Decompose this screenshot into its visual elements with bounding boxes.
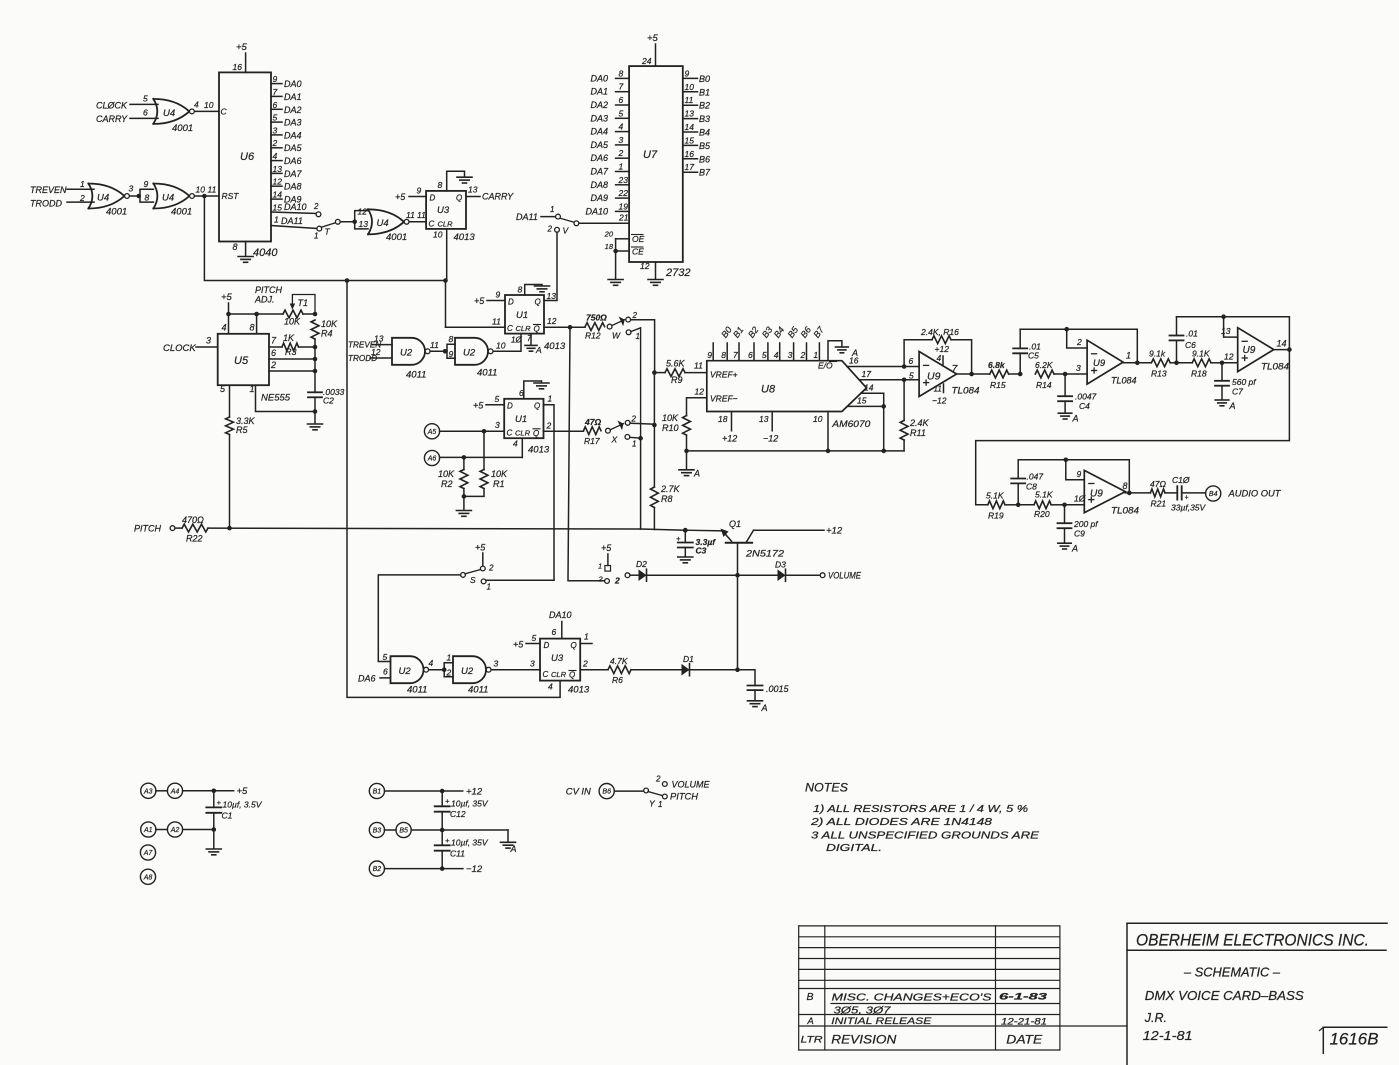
ground A (U1a pin 7) xyxy=(511,334,542,355)
wire U9d feedback rail xyxy=(1018,458,1131,496)
svg-text:A6: A6 xyxy=(427,456,437,463)
svg-text:S: S xyxy=(470,575,476,585)
svg-text:DA7: DA7 xyxy=(284,169,303,179)
svg-text:U2: U2 xyxy=(399,666,412,677)
svg-text:+: + xyxy=(445,836,450,845)
svg-text:VOLUME: VOLUME xyxy=(828,571,862,581)
ground A (R10) xyxy=(679,469,700,479)
svg-text:R17: R17 xyxy=(584,436,600,446)
svg-text:DA2: DA2 xyxy=(590,100,608,110)
svg-text:9: 9 xyxy=(707,350,712,360)
svg-text:12: 12 xyxy=(358,207,368,217)
svg-text:DA9: DA9 xyxy=(590,193,608,203)
svg-text:DA5: DA5 xyxy=(284,143,303,153)
svg-text:DA6: DA6 xyxy=(284,156,302,166)
pin 5 (U8 input) xyxy=(760,325,775,361)
pin 10 ground (U8) xyxy=(813,412,830,454)
connector A1 xyxy=(141,822,168,837)
svg-text:2) ALL DIODES ARE 1N4148: 2) ALL DIODES ARE 1N4148 xyxy=(810,816,993,828)
capacitor C12 10uf xyxy=(435,791,489,830)
svg-text:B1: B1 xyxy=(699,87,710,97)
wire stage3 to stage4 long feedback path xyxy=(976,350,1290,505)
svg-text:15: 15 xyxy=(857,396,867,406)
svg-text:R8: R8 xyxy=(661,494,673,504)
capacitor C2 .0033 xyxy=(308,387,345,414)
svg-text:DA4: DA4 xyxy=(284,130,302,140)
svg-text:CLR: CLR xyxy=(438,220,454,229)
svg-text:B3: B3 xyxy=(373,828,382,835)
flip-flop U1a 4013 xyxy=(505,295,566,352)
svg-text:Q: Q xyxy=(569,671,575,680)
svg-text:4.7K: 4.7K xyxy=(610,656,628,666)
svg-text:470Ω: 470Ω xyxy=(182,515,204,525)
wire U4b out xyxy=(129,184,142,199)
svg-text:+5: +5 xyxy=(475,543,486,553)
resistor R20 5.1K xyxy=(1018,490,1087,520)
svg-text:10: 10 xyxy=(433,230,443,240)
wire RST node down and across xyxy=(204,196,447,283)
svg-text:DATE: DATE xyxy=(1006,1035,1042,1047)
wire U2d out to U3b C xyxy=(491,659,540,670)
svg-text:2.7K: 2.7K xyxy=(660,484,681,494)
label DA11 to jumper V xyxy=(516,205,560,222)
gate U2a 4011 xyxy=(392,338,430,381)
pin 6 DA2 (U7) xyxy=(590,95,629,110)
svg-text:2: 2 xyxy=(272,138,278,148)
power +5 (U5) xyxy=(221,292,233,314)
svg-text:2: 2 xyxy=(631,415,637,424)
svg-text:1616B: 1616B xyxy=(1330,1031,1379,1049)
svg-text:20: 20 xyxy=(604,230,614,239)
svg-text:6: 6 xyxy=(143,108,148,118)
jumper contact 2 xyxy=(598,575,621,586)
pin 13 B3 (U7) xyxy=(683,109,710,125)
wire pitch line xyxy=(208,527,641,530)
svg-text:CV IN: CV IN xyxy=(566,787,591,798)
svg-text:5: 5 xyxy=(532,633,537,643)
pin 16 B6 (U7) xyxy=(683,149,710,165)
pin 13 -12 (U8) xyxy=(759,412,778,444)
pin 15 B5 (U7) xyxy=(683,135,711,151)
svg-text:PITCH: PITCH xyxy=(255,285,283,295)
svg-text:RST: RST xyxy=(222,191,240,201)
svg-text:LTR: LTR xyxy=(801,1035,823,1046)
svg-text:8: 8 xyxy=(518,285,523,295)
svg-text:4011: 4011 xyxy=(406,370,426,381)
svg-text:13: 13 xyxy=(685,109,695,119)
pin 5 DA3 (U6) xyxy=(271,113,302,128)
svg-text:2: 2 xyxy=(546,421,552,431)
connector B3 xyxy=(369,822,396,837)
power +5 (volume jumper) xyxy=(601,543,612,566)
svg-text:PITCH: PITCH xyxy=(134,524,162,534)
gate U4c 4001 xyxy=(153,184,194,218)
wire pins 14/15 to ground rail xyxy=(848,383,887,454)
resistor R9 5.6K xyxy=(654,359,706,386)
wire Q12 node to volume jumper xyxy=(568,327,605,581)
svg-text:DA11: DA11 xyxy=(281,216,303,226)
svg-text:12: 12 xyxy=(273,177,283,187)
svg-text:8: 8 xyxy=(250,323,255,333)
svg-text:.0015: .0015 xyxy=(766,684,790,694)
wire U9a out 7 xyxy=(952,363,990,375)
svg-text:+: + xyxy=(1185,495,1189,502)
svg-text:X: X xyxy=(611,435,618,445)
svg-text:R11: R11 xyxy=(910,428,926,438)
svg-text:22: 22 xyxy=(618,188,629,198)
op-amp U9c TL084 xyxy=(1238,328,1289,373)
svg-text:DA1: DA1 xyxy=(284,92,302,102)
svg-text:4011: 4011 xyxy=(468,685,488,696)
svg-text:16: 16 xyxy=(849,356,859,366)
svg-text:4013: 4013 xyxy=(528,445,550,456)
svg-text:7: 7 xyxy=(527,334,532,343)
svg-text:C1: C1 xyxy=(222,811,233,821)
pins 20 OE / 18 CE grounded xyxy=(604,230,645,280)
pin 4 (U8 input) xyxy=(772,325,787,361)
capacitor C1 10uf xyxy=(206,791,262,830)
svg-text:DIGITAL.: DIGITAL. xyxy=(826,842,882,854)
svg-text:13: 13 xyxy=(547,291,557,301)
svg-text:DA0: DA0 xyxy=(284,79,302,89)
wire U3 Q13 CARRY xyxy=(466,185,514,202)
jumper W contact 1 xyxy=(626,328,640,438)
svg-text:560 pf: 560 pf xyxy=(1232,377,1257,387)
label TREVEN (U2 13) xyxy=(348,334,392,350)
svg-text:5: 5 xyxy=(143,94,148,104)
svg-text:D: D xyxy=(507,402,513,411)
diode D3 xyxy=(737,560,820,582)
svg-text:10: 10 xyxy=(496,341,506,351)
svg-text:B: B xyxy=(807,991,814,1003)
svg-text:7: 7 xyxy=(273,87,278,97)
resistor R8 2.7K xyxy=(651,484,681,529)
wire U3 pin10 down to node xyxy=(433,229,447,281)
svg-text:200 pf: 200 pf xyxy=(1073,519,1099,529)
label DA6 (U2c pin 6) xyxy=(358,667,391,684)
svg-text:16: 16 xyxy=(233,62,243,72)
svg-text:9.1K: 9.1K xyxy=(1192,349,1210,359)
ground A (U8 E/O) xyxy=(828,341,858,361)
svg-text:+5: +5 xyxy=(473,401,484,411)
svg-text:+: + xyxy=(676,534,681,543)
svg-text:14: 14 xyxy=(685,122,695,132)
svg-text:.01: .01 xyxy=(1186,329,1198,339)
pin 2 DA5 (U6) xyxy=(271,138,303,153)
svg-text:10K: 10K xyxy=(662,413,679,423)
svg-text:R1: R1 xyxy=(493,479,505,489)
svg-text:B7: B7 xyxy=(699,168,711,178)
ground A (C4) xyxy=(1058,413,1078,423)
svg-text:B5: B5 xyxy=(399,828,408,835)
label TRODD (U2 12) xyxy=(348,347,392,363)
svg-text:U4: U4 xyxy=(162,193,174,204)
svg-text:3: 3 xyxy=(530,659,535,669)
wire U9b feedback rail xyxy=(1020,327,1139,365)
svg-text:8: 8 xyxy=(145,193,150,203)
pin 3 DA4 (U6) xyxy=(271,125,302,140)
svg-text:10K: 10K xyxy=(321,319,338,329)
pin 15 DA10 (U6) to jumper T contact 2 xyxy=(271,202,321,217)
svg-text:11: 11 xyxy=(406,210,415,220)
node bracket pins 8/9 xyxy=(447,334,455,359)
svg-text:2: 2 xyxy=(79,193,85,203)
connector B2 xyxy=(369,861,483,876)
svg-text:D3: D3 xyxy=(775,560,786,570)
svg-text:8: 8 xyxy=(721,350,726,360)
svg-text:ADJ.: ADJ. xyxy=(254,295,275,305)
svg-text:C: C xyxy=(429,220,435,229)
svg-text:2: 2 xyxy=(547,225,553,234)
label TRODD xyxy=(30,193,94,209)
label CARRY xyxy=(96,108,158,125)
ground (U7 pin 12) xyxy=(640,261,663,285)
capacitor C6 .01 xyxy=(1170,317,1199,363)
svg-text:B2: B2 xyxy=(699,101,710,111)
svg-text:1: 1 xyxy=(1126,351,1131,361)
wire node to U3b pin 4 xyxy=(347,281,560,698)
title schematic xyxy=(1183,966,1281,980)
connector B4 AUDIO OUT xyxy=(1206,486,1282,501)
op-amp U9a TL084 xyxy=(919,352,979,397)
svg-text:B2: B2 xyxy=(373,866,382,873)
wire U9b out 1 xyxy=(1123,351,1151,363)
pin 9 B0 (U7) xyxy=(683,68,710,84)
svg-text:12-21-81: 12-21-81 xyxy=(1001,1017,1047,1028)
terminal to diode D2 xyxy=(625,573,638,578)
ground A (B5) xyxy=(501,830,517,854)
svg-text:R21: R21 xyxy=(1151,499,1167,509)
flip-flop U3 4013 xyxy=(426,191,475,243)
svg-text:5.1K: 5.1K xyxy=(986,491,1004,501)
svg-text:4013: 4013 xyxy=(568,685,590,696)
pin 7 DA1 (U6) xyxy=(271,87,302,102)
svg-text:12: 12 xyxy=(371,347,381,357)
svg-text:D: D xyxy=(544,641,550,650)
svg-text:DA3: DA3 xyxy=(284,118,302,128)
svg-text:U3: U3 xyxy=(551,653,564,664)
svg-text:CLR: CLR xyxy=(551,670,567,679)
svg-text:6: 6 xyxy=(383,667,388,677)
jumper V arm xyxy=(560,218,579,226)
wire U5 pin 6 xyxy=(269,348,317,361)
capacitor C3 3.3uf xyxy=(676,528,716,557)
pin 3 (U8 input) xyxy=(786,324,801,361)
svg-text:A: A xyxy=(1071,544,1078,554)
svg-text:1: 1 xyxy=(447,653,452,663)
svg-text:10: 10 xyxy=(196,185,206,195)
svg-text:10: 10 xyxy=(204,100,214,110)
svg-text:Q: Q xyxy=(534,325,540,334)
svg-text:DA8: DA8 xyxy=(284,182,302,192)
svg-text:C: C xyxy=(507,429,513,438)
svg-text:2: 2 xyxy=(598,575,604,584)
svg-text:CLR: CLR xyxy=(515,429,531,438)
jumper contact 1 square xyxy=(598,562,611,572)
notes text xyxy=(805,783,1040,855)
svg-text:21: 21 xyxy=(618,213,629,223)
svg-text:13: 13 xyxy=(468,185,478,195)
capacitor C11 10uf xyxy=(435,830,489,869)
svg-text:1K: 1K xyxy=(283,333,295,343)
resistor R18 9.1K xyxy=(1177,349,1238,379)
pin 9 (U8 input) xyxy=(707,343,713,361)
wire U8 out 17 to U9a plus xyxy=(859,369,919,382)
svg-text:C9: C9 xyxy=(1074,529,1085,539)
ground (U7 pin 18/20) xyxy=(608,280,623,286)
gate U2b 4011 xyxy=(455,338,497,379)
svg-text:10: 10 xyxy=(685,82,695,92)
gate U2d 4011 xyxy=(453,656,491,695)
svg-text:R13: R13 xyxy=(1151,369,1167,379)
wire S common to U2c pin5 xyxy=(378,575,460,662)
wire DA10 to U3b pin 6 xyxy=(549,610,572,639)
pin 8 DA0 (U7) xyxy=(590,68,629,83)
wire +5 rail to T1 xyxy=(226,312,283,317)
svg-text:CLR: CLR xyxy=(516,324,532,333)
label CLOCK (U5 pin3) xyxy=(163,336,218,355)
svg-text:19: 19 xyxy=(619,201,629,211)
svg-text:33µf,35V: 33µf,35V xyxy=(1171,503,1207,513)
svg-text:3: 3 xyxy=(273,125,278,135)
svg-text:2: 2 xyxy=(632,311,638,320)
pin 1 DA11 (U6) to jumper T contact 1 xyxy=(271,215,322,241)
svg-text:Q1: Q1 xyxy=(729,519,741,529)
svg-text:U2: U2 xyxy=(463,348,476,359)
svg-text:U1: U1 xyxy=(516,310,528,321)
svg-text:+: + xyxy=(217,798,222,807)
svg-text:B4: B4 xyxy=(1209,491,1218,498)
svg-text:2.4K, R16: 2.4K, R16 xyxy=(920,327,959,337)
resistor R12 750 xyxy=(585,313,612,341)
wire U8 out 16 to U9a minus xyxy=(847,356,919,369)
svg-text:1: 1 xyxy=(636,332,640,341)
svg-text:OE: OE xyxy=(632,234,645,244)
pin 9 DA0 (U6) xyxy=(271,74,302,89)
ground (U6 pin 8) xyxy=(238,242,253,263)
svg-text:4: 4 xyxy=(513,439,518,449)
title card name xyxy=(1145,988,1304,1003)
svg-text:U2: U2 xyxy=(400,348,413,359)
revision table xyxy=(799,926,1060,1050)
svg-text:1: 1 xyxy=(274,215,279,225)
svg-text:+12: +12 xyxy=(935,344,950,354)
svg-text:A: A xyxy=(510,844,517,854)
svg-text:DA6: DA6 xyxy=(358,674,376,684)
svg-text:6: 6 xyxy=(271,348,276,358)
ground (U3 pin 8) xyxy=(438,171,473,191)
pin 23 DA8 (U7) xyxy=(590,175,629,190)
svg-text:2: 2 xyxy=(1076,337,1082,347)
title block frame xyxy=(1127,923,1387,1065)
svg-text:AUDIO OUT: AUDIO OUT xyxy=(1227,489,1282,499)
op-amp U9d TL084 xyxy=(1084,470,1139,516)
label PITCH ADJ. xyxy=(254,285,283,305)
pin 14 DA9 (U6) xyxy=(271,190,302,205)
svg-text:2N5172: 2N5172 xyxy=(745,549,785,560)
connector B6 CV IN xyxy=(566,784,644,799)
capacitor C9 200pf xyxy=(1058,505,1100,543)
resistor R5 3.3K xyxy=(226,385,256,530)
svg-text:24: 24 xyxy=(641,56,652,66)
svg-text:15: 15 xyxy=(273,203,283,213)
power +12 (U9a pin 4) xyxy=(935,344,950,365)
svg-text:C1Ø: C1Ø xyxy=(1172,475,1191,485)
svg-text:DA10: DA10 xyxy=(284,202,307,212)
svg-text:Q: Q xyxy=(535,298,541,307)
svg-text:4013: 4013 xyxy=(454,232,476,243)
svg-text:15: 15 xyxy=(685,135,695,145)
svg-text:5: 5 xyxy=(383,652,388,662)
IC U5 NE555 xyxy=(218,334,291,404)
svg-text:+5: +5 xyxy=(395,192,406,202)
svg-text:CARRY: CARRY xyxy=(482,192,514,202)
svg-text:2: 2 xyxy=(614,576,620,586)
pin 17 B7 (U7) xyxy=(683,162,711,178)
svg-text:4: 4 xyxy=(273,151,278,161)
svg-text:R20: R20 xyxy=(1034,509,1050,519)
svg-text:DA7: DA7 xyxy=(590,167,609,177)
title initials xyxy=(1144,1011,1167,1025)
svg-text:B6: B6 xyxy=(699,154,710,164)
svg-text:10µf, 3.5V: 10µf, 3.5V xyxy=(223,800,263,810)
wire U2a out xyxy=(430,340,447,354)
svg-text:14: 14 xyxy=(864,383,874,393)
svg-text:U5: U5 xyxy=(234,355,249,367)
svg-text:1: 1 xyxy=(584,632,589,642)
svg-text:.047: .047 xyxy=(1027,472,1044,482)
jumper W diode arm to contact 2 xyxy=(612,311,638,341)
power +5 (U1a pin 9) xyxy=(474,290,505,307)
svg-text:+12: +12 xyxy=(722,434,737,444)
svg-text:C: C xyxy=(221,107,228,117)
pin 3 DA5 (U7) xyxy=(590,135,629,150)
svg-text:4011: 4011 xyxy=(477,368,497,379)
svg-text:R22: R22 xyxy=(186,534,203,544)
node bracket pins 1/2 xyxy=(444,653,453,678)
svg-text:12: 12 xyxy=(1224,352,1234,362)
svg-text:U7: U7 xyxy=(643,149,658,161)
wire U9c minus pin 13 xyxy=(1221,317,1238,337)
svg-text:T1: T1 xyxy=(298,298,309,308)
node bracket pins 9/8 xyxy=(140,179,153,203)
resistor R10 10K xyxy=(662,387,707,470)
svg-text:R19: R19 xyxy=(988,511,1004,521)
svg-text:CE: CE xyxy=(632,247,644,257)
svg-text:3Ø5, 3Ø7: 3Ø5, 3Ø7 xyxy=(834,1005,892,1017)
svg-text:14: 14 xyxy=(273,190,283,200)
svg-text:6: 6 xyxy=(273,100,278,110)
svg-text:DA0: DA0 xyxy=(590,73,608,83)
ground (C3) xyxy=(678,557,693,563)
resistor R6 4.7K xyxy=(608,656,682,685)
svg-text:3: 3 xyxy=(788,350,793,360)
svg-text:13: 13 xyxy=(374,334,384,344)
jumper X contact 1 xyxy=(625,435,643,449)
svg-text:+5: +5 xyxy=(474,296,485,306)
svg-text:B6: B6 xyxy=(602,789,611,796)
svg-text:A: A xyxy=(535,345,542,355)
svg-text:R3: R3 xyxy=(285,347,297,357)
connector A7 xyxy=(140,845,155,860)
wire U2b out to U1a pin 10 xyxy=(493,334,521,352)
svg-text:D: D xyxy=(430,194,436,203)
svg-text:C5: C5 xyxy=(1028,351,1039,361)
svg-text:17: 17 xyxy=(862,369,872,379)
switch Y xyxy=(644,775,711,810)
svg-text:TL084: TL084 xyxy=(1261,362,1289,373)
pin 6 (U8 input) xyxy=(746,325,761,361)
